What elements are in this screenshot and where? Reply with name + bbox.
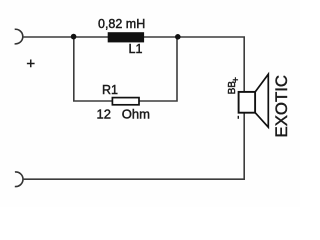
svg-text:+: + — [232, 75, 238, 86]
wire: top rail from terminal to right corner, down right side, bottom rail back to terminal — [23, 37, 245, 179]
input terminal top (arc) — [15, 29, 23, 44]
wire: parallel branch down-left, across, up-right — [74, 37, 177, 101]
node junction left — [71, 34, 77, 40]
svg-text:+: + — [26, 56, 35, 73]
svg-text:12 Ohm: 12 Ohm — [97, 107, 150, 122]
speaker driver square — [239, 92, 256, 113]
node junction right — [175, 34, 181, 40]
svg-text:EXOTIC: EXOTIC — [272, 75, 291, 137]
minus polarity (speaker, rotated dash) — [237, 116, 239, 119]
resistor R1 body — [112, 98, 139, 105]
speaker cone — [255, 74, 268, 127]
svg-text:L1: L1 — [129, 42, 143, 56]
svg-text:R1: R1 — [102, 83, 118, 97]
input terminal bottom (arc) — [15, 172, 23, 187]
svg-text:0,82 mH: 0,82 mH — [98, 17, 145, 31]
inductor L1 body — [108, 32, 144, 42]
